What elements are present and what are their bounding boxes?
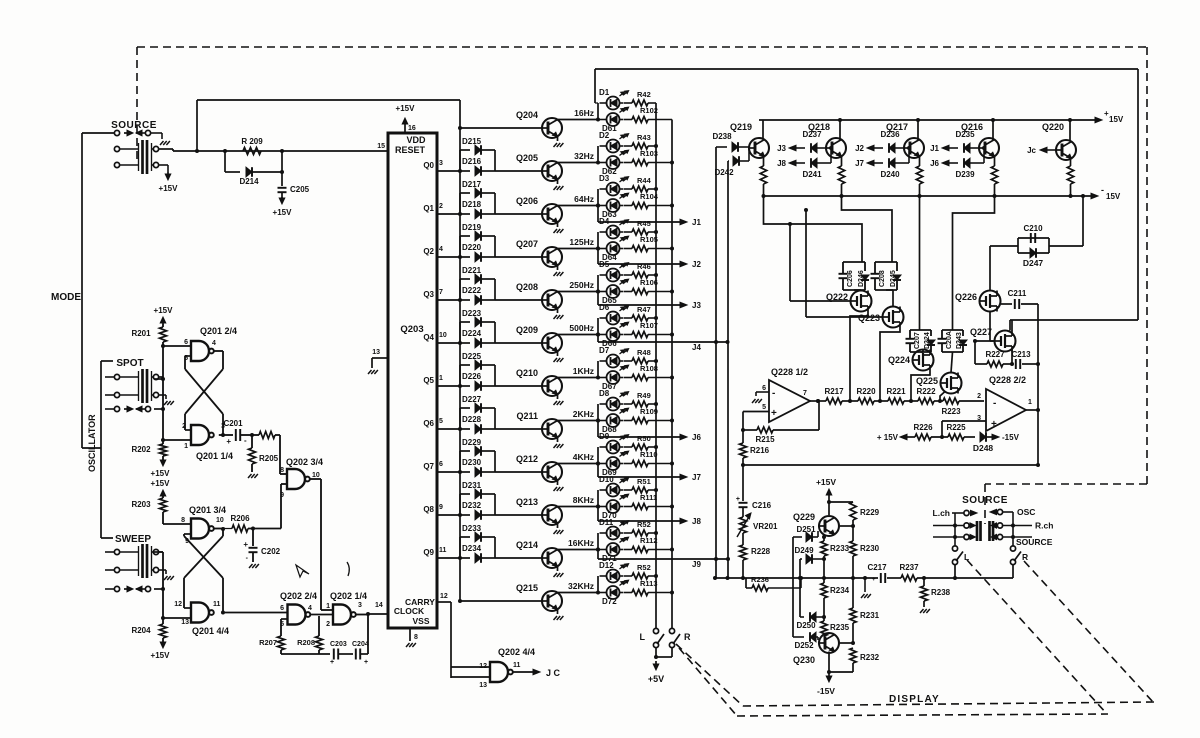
svg-text:C20A: C20A	[946, 331, 953, 349]
svg-text:Q3: Q3	[423, 290, 434, 299]
svg-text:J3: J3	[777, 144, 786, 153]
resistor R232	[850, 648, 856, 663]
spot switch core bars	[141, 369, 144, 403]
svg-text:-: -	[772, 388, 775, 399]
svg-text:R217: R217	[824, 387, 844, 396]
svg-text:4: 4	[212, 340, 216, 347]
svg-text:R113: R113	[640, 579, 658, 588]
wire gate 4/4 output to 2/4 input	[225, 612, 288, 614]
LED D65	[607, 285, 620, 298]
svg-text:13: 13	[372, 349, 380, 356]
svg-text:+15V: +15V	[151, 469, 171, 478]
LED D69	[607, 457, 620, 470]
LED pair feed D7/D67	[597, 361, 599, 378]
wire vertical D251 feed	[792, 537, 794, 637]
svg-text:DISPLAY: DISPLAY	[889, 694, 940, 705]
transistor Q220	[1056, 140, 1076, 160]
emitter resistor Q216	[994, 157, 996, 167]
wire Q222 source down	[850, 312, 868, 402]
svg-text:R111: R111	[640, 493, 657, 502]
wire output J3	[597, 292, 599, 306]
LED D64	[607, 242, 620, 255]
nand gate Q202 1/4	[333, 605, 351, 625]
resistor R111	[624, 506, 632, 508]
svg-text:R47: R47	[637, 305, 651, 314]
svg-text:Q211: Q211	[516, 411, 538, 421]
wire collector Q211 (2KHz)	[558, 420, 599, 422]
diode D232	[460, 514, 470, 516]
svg-text:D251: D251	[796, 525, 816, 534]
svg-text:7: 7	[803, 390, 807, 397]
svg-text:D243: D243	[956, 332, 963, 349]
svg-text:16KHz: 16KHz	[568, 538, 594, 548]
svg-text:10: 10	[216, 517, 224, 524]
wire source row to ground stub	[151, 132, 162, 134]
svg-text:3: 3	[358, 602, 362, 609]
wire Q227 top line	[1010, 319, 1138, 321]
svg-text:R215: R215	[755, 435, 775, 444]
svg-text:R222: R222	[916, 387, 936, 396]
stray cursor mark	[296, 565, 309, 577]
svg-text:3: 3	[439, 160, 443, 167]
svg-text:32Hz: 32Hz	[574, 151, 594, 161]
display outline bottom line 1	[743, 702, 1154, 706]
resistor R204	[162, 618, 164, 624]
diode pair D227/D228 link	[459, 408, 461, 429]
wire output J2	[597, 249, 599, 265]
svg-text:D219: D219	[462, 223, 482, 232]
svg-text:L.ch: L.ch	[933, 508, 950, 518]
dashed boundary left	[136, 47, 138, 162]
svg-text:D225: D225	[462, 352, 482, 361]
wire top feed line y69	[595, 68, 1138, 70]
svg-text:D241: D241	[802, 170, 822, 179]
selector row OSC	[990, 509, 997, 514]
dashed boundary right	[1146, 47, 1148, 484]
wire collector Q207 (125Hz)	[558, 248, 599, 250]
LED D4	[607, 226, 620, 239]
svg-text:R112: R112	[640, 536, 658, 545]
wire collector Q220	[1069, 120, 1071, 142]
spot switch contacts	[114, 374, 119, 379]
svg-text:D227: D227	[462, 395, 482, 404]
svg-text:Q1: Q1	[423, 204, 434, 213]
wire base feed Q214	[495, 557, 542, 559]
svg-text:D223: D223	[462, 309, 482, 318]
svg-text:Q202 3/4: Q202 3/4	[286, 457, 323, 467]
diode pair D229/D230 link	[459, 451, 461, 472]
wire base feed Q213	[495, 514, 542, 516]
wire 1/4 output to clock pin 14	[356, 614, 368, 616]
capacitor C201	[219, 434, 233, 436]
resistor row R217 R220 R221 R222 R223	[826, 398, 842, 404]
feedback long line from op-amp2	[743, 464, 1038, 466]
wire long vertical from D238	[715, 147, 717, 578]
resistor R207	[281, 618, 288, 620]
diode pair D219/D220 link	[459, 236, 461, 257]
LED D10	[607, 484, 620, 497]
svg-text:D3: D3	[599, 174, 610, 183]
svg-text:RESET: RESET	[395, 145, 426, 155]
svg-text:Q213: Q213	[516, 497, 538, 507]
wire collector Q210 (1KHz)	[558, 377, 599, 379]
diode D219	[460, 235, 470, 237]
resistor R108	[624, 377, 632, 379]
svg-text:D9: D9	[599, 432, 610, 441]
svg-text:D11: D11	[599, 518, 614, 527]
svg-text:R52: R52	[637, 563, 651, 572]
selector row 3 left	[933, 536, 964, 538]
fet Q226	[980, 291, 1001, 312]
svg-text:+15V: +15V	[816, 477, 836, 487]
svg-text:-15V: -15V	[1002, 433, 1020, 442]
svg-text:6: 6	[280, 605, 284, 612]
resistor R201	[162, 324, 164, 327]
wire base feed Q207	[495, 256, 542, 258]
resistor R237	[901, 575, 917, 581]
svg-text:D238: D238	[712, 132, 732, 141]
svg-text:R205: R205	[259, 454, 279, 463]
svg-text:R202: R202	[131, 445, 151, 454]
svg-text:-: -	[244, 436, 247, 445]
capacitor C217	[880, 573, 882, 583]
wire collector Q219	[762, 120, 764, 140]
svg-text:VDD: VDD	[406, 135, 426, 145]
wire output J8	[597, 507, 599, 522]
wire base feed Q212	[495, 471, 542, 473]
LED pair feed D4/D64	[597, 232, 599, 249]
ground below Q209	[557, 352, 559, 357]
LED D1	[607, 97, 620, 110]
transistor Q211	[542, 419, 562, 439]
svg-text:D249: D249	[794, 546, 814, 555]
svg-text:D7: D7	[599, 346, 610, 355]
capacitor C206 / diode D246 pair	[764, 196, 863, 262]
wire collector Q212 (4KHz)	[558, 463, 599, 465]
svg-text:2: 2	[977, 393, 981, 400]
wire base feed Q206	[495, 213, 542, 215]
wire right edge drop	[1137, 69, 1139, 320]
svg-text:J6: J6	[930, 159, 939, 168]
nand gate Q201 3/4	[191, 519, 209, 539]
resistor R206	[214, 528, 225, 530]
svg-text:Q220: Q220	[1042, 122, 1064, 132]
svg-text:D248: D248	[973, 443, 994, 453]
svg-text:R228: R228	[751, 547, 771, 556]
wire collector Q205 (32Hz)	[558, 162, 599, 164]
svg-text:R.ch: R.ch	[1035, 521, 1053, 531]
wire transformer lower tap	[159, 164, 168, 166]
svg-text:125Hz: 125Hz	[569, 237, 594, 247]
svg-text:-: -	[1101, 185, 1104, 195]
transistor Q212	[542, 462, 562, 482]
ground below Q205	[557, 180, 559, 185]
resistor R228	[742, 533, 744, 545]
wire collector Q215 (32KHz)	[558, 592, 599, 594]
diode D220	[460, 256, 470, 258]
source transformer core bars	[141, 140, 144, 174]
LED D9	[607, 441, 620, 454]
wire spot common vertical	[162, 346, 164, 444]
svg-text:R226: R226	[913, 423, 933, 432]
source transformer right contacts	[151, 143, 153, 171]
svg-text:-: -	[993, 398, 996, 409]
diode D242	[728, 160, 729, 162]
wire D247 to -15V bus	[1049, 245, 1083, 247]
svg-text:Q202 4/4: Q202 4/4	[498, 647, 535, 657]
wire carry to gate 4/4 inputs	[451, 666, 490, 668]
svg-text:8KHz: 8KHz	[573, 495, 594, 505]
LED D66	[607, 328, 620, 341]
svg-text:+: +	[243, 540, 248, 549]
pin 16 and +15V	[404, 124, 406, 133]
diode D216	[460, 170, 470, 172]
transistor Q218	[826, 138, 846, 158]
wire op-amp2 output	[1026, 409, 1038, 411]
svg-text:D237: D237	[802, 130, 822, 139]
wire collector Q204 (16Hz)	[558, 119, 599, 121]
svg-text:J2: J2	[692, 260, 701, 269]
svg-text:+15V: +15V	[396, 104, 416, 113]
svg-text:OSCILLATOR: OSCILLATOR	[87, 414, 97, 472]
svg-text:VSS: VSS	[412, 616, 429, 626]
wire vertical D249 feed	[799, 559, 801, 617]
fet Q225	[951, 352, 953, 373]
svg-text:J8: J8	[777, 159, 786, 168]
wire collector Q214 (16KHz)	[558, 549, 599, 551]
resistor R229	[850, 502, 856, 520]
svg-text:16Hz: 16Hz	[574, 108, 594, 118]
svg-text:+: +	[872, 577, 876, 583]
svg-text:Q228 2/2: Q228 2/2	[989, 375, 1026, 385]
svg-text:R46: R46	[637, 262, 651, 271]
LED D63	[607, 199, 620, 212]
svg-text:Q202 2/4: Q202 2/4	[280, 591, 317, 601]
spot switch right contacts	[151, 371, 153, 401]
resistor R113	[624, 592, 632, 594]
op-amp Q228 1/2	[769, 380, 810, 422]
svg-text:D224: D224	[924, 332, 931, 349]
svg-text:R233: R233	[830, 544, 850, 553]
svg-text:C207: C207	[914, 332, 921, 349]
svg-text:Q201 2/4: Q201 2/4	[200, 326, 237, 336]
capacitor C211	[1001, 303, 1012, 305]
svg-text:R229: R229	[860, 508, 880, 517]
wire output J6	[597, 421, 599, 438]
svg-text:D224: D224	[462, 329, 482, 338]
diode D226	[460, 385, 470, 387]
svg-text:C201: C201	[223, 419, 243, 428]
svg-text:D216: D216	[462, 157, 482, 166]
IC output Q8 pin 9	[437, 514, 460, 516]
resistor R216	[742, 412, 744, 444]
resistor R45	[624, 231, 632, 233]
ground below Q204	[557, 137, 559, 142]
svg-text:D232: D232	[462, 501, 482, 510]
svg-text:64Hz: 64Hz	[574, 194, 594, 204]
ground stub at spot switch	[159, 394, 166, 396]
svg-text:Q206: Q206	[516, 196, 538, 206]
op-amp Q228 2/2	[986, 389, 1026, 431]
emitter resistor Q217	[919, 157, 921, 167]
svg-text:Q227: Q227	[970, 327, 992, 337]
svg-text:R49: R49	[637, 391, 651, 400]
wire collector Q208 (250Hz)	[558, 291, 599, 293]
svg-text:Q219: Q219	[730, 122, 752, 132]
svg-text:D250: D250	[796, 621, 816, 630]
arrow +15V below R204	[162, 642, 164, 646]
wire collector Q218	[839, 120, 841, 140]
svg-text:R48: R48	[637, 348, 651, 357]
sweep switch arrow row	[114, 586, 119, 591]
svg-text:SPOT: SPOT	[116, 358, 143, 369]
svg-text:R207: R207	[259, 638, 277, 647]
svg-text:D4: D4	[599, 217, 610, 226]
LED D8	[607, 398, 620, 411]
LED D72	[607, 586, 620, 599]
svg-text:+15V: +15V	[273, 208, 293, 217]
diode D250 row	[800, 616, 804, 618]
wire to Q202 3/4 pin8	[279, 435, 281, 474]
wire collector Q213 (8KHz)	[558, 506, 599, 508]
svg-text:Q7: Q7	[423, 462, 434, 471]
svg-text:R50: R50	[637, 434, 651, 443]
IC output Q0 pin 3	[437, 170, 460, 172]
resistor R205	[251, 435, 253, 448]
svg-text:R237: R237	[899, 563, 919, 572]
LED D67	[607, 371, 620, 384]
wire Q227 drain to top line	[1011, 320, 1013, 331]
source switch row contacts	[114, 130, 119, 135]
svg-text:7: 7	[439, 289, 443, 296]
diode D228	[460, 428, 470, 430]
resistor R208	[318, 616, 320, 636]
resistor R106	[624, 291, 632, 293]
wire source line to pin 15	[197, 150, 388, 152]
resistor R104	[624, 205, 632, 207]
svg-text:Q8: Q8	[423, 505, 434, 514]
IC output Q9 pin 11	[437, 557, 460, 559]
wire sweep to gate input	[159, 551, 163, 553]
emitter resistor Q218	[841, 157, 843, 167]
wire R203 to pin8	[163, 523, 191, 525]
wire base feed Q211	[495, 428, 542, 430]
wire vertical to 1/4 pin1	[321, 609, 333, 611]
resistor R47	[624, 317, 632, 319]
wire base feed Q208	[495, 299, 542, 301]
emitter resistor Q220	[1070, 159, 1072, 167]
LED D7	[607, 355, 620, 368]
diode D217	[460, 192, 470, 194]
IC Q203 body	[388, 133, 437, 628]
wire Q227 source to row	[1011, 349, 1013, 364]
display outline long diagonal from L switch	[967, 560, 1107, 714]
svg-text:D72: D72	[602, 597, 617, 606]
svg-text:D236: D236	[880, 130, 900, 139]
svg-text:D10: D10	[599, 475, 614, 484]
svg-text:16: 16	[408, 125, 416, 132]
resistor R209	[243, 148, 261, 155]
svg-text:R236: R236	[751, 575, 769, 584]
collector bus +15V	[759, 119, 1096, 121]
LED pair feed D8/D68	[597, 404, 599, 421]
svg-text:Q2: Q2	[423, 247, 434, 256]
wire to Q202 3/4 pin9	[280, 484, 282, 529]
svg-text:1: 1	[1028, 399, 1032, 406]
ground below R205	[248, 474, 252, 478]
diode D227	[460, 407, 470, 409]
svg-text:D217: D217	[462, 180, 482, 189]
svg-text:R204: R204	[131, 626, 151, 635]
svg-text:+: +	[364, 659, 368, 666]
arrow output J8 and diode D241	[789, 160, 796, 166]
resistor R235	[823, 617, 825, 621]
capacitor C205	[280, 170, 284, 174]
arrow output J2 and diode D236	[867, 145, 874, 151]
ground below C202	[249, 564, 253, 568]
svg-text:Q214: Q214	[516, 540, 538, 550]
wire collector Q209 (500Hz)	[558, 334, 599, 336]
diode pair D223/D224 link	[459, 322, 461, 343]
cross coupling X lower	[184, 536, 223, 578]
transistor Q208	[542, 290, 562, 310]
wire resistor bottoms	[281, 653, 330, 655]
LED pair feed D9/D69	[597, 447, 599, 464]
nand gate Q201 2/4	[191, 341, 209, 361]
wire gate 1/4 pin2	[185, 429, 191, 431]
svg-text:6: 6	[184, 339, 188, 346]
resistor R42	[624, 102, 632, 104]
diode D231	[460, 493, 470, 495]
svg-text:+: +	[226, 437, 231, 446]
LED pair feed D3/D63	[597, 189, 599, 206]
svg-text:Q201 1/4: Q201 1/4	[196, 451, 233, 461]
resistor R227 and capacitor C213 row	[975, 363, 987, 365]
LED D11	[607, 527, 620, 540]
wire Q224 source down	[911, 371, 930, 402]
svg-text:J9: J9	[692, 560, 701, 569]
LED pair feed D2/D62	[597, 146, 599, 163]
transistor Q217	[904, 138, 924, 158]
LED D70	[607, 500, 620, 513]
svg-text:Q226: Q226	[955, 292, 977, 302]
svg-text:8: 8	[181, 517, 185, 524]
svg-text:11: 11	[439, 547, 447, 554]
wire output J9	[597, 550, 599, 560]
arrow +15V below R202	[162, 460, 164, 464]
svg-text:10: 10	[312, 472, 320, 479]
LED D68	[607, 414, 620, 427]
svg-text:1: 1	[184, 443, 188, 450]
source transformer windings	[120, 148, 139, 150]
resistor R238 to ground	[922, 576, 926, 580]
svg-text:Q223: Q223	[858, 313, 880, 323]
transistor Q210	[542, 376, 562, 396]
LED D2	[607, 140, 620, 153]
wire Q229 emitter	[823, 535, 826, 538]
selector row 2 right	[991, 523, 997, 528]
svg-text:C206: C206	[847, 270, 854, 287]
wire R201 to gate pin6	[163, 345, 191, 347]
svg-text:9: 9	[439, 504, 443, 511]
svg-text:Q4: Q4	[423, 333, 434, 342]
wire Q202 3/4 output down	[310, 478, 321, 480]
svg-text:Jc: Jc	[1027, 146, 1036, 155]
svg-text:Q201 3/4: Q201 3/4	[189, 505, 226, 515]
pin 13 stub and ground	[372, 357, 388, 359]
wire pin6 ground	[756, 391, 769, 393]
svg-text:Q204: Q204	[516, 110, 538, 120]
